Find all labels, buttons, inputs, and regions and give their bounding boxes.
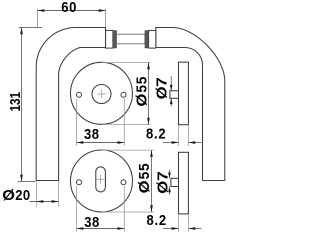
svg-text:8.2: 8.2 [147, 212, 167, 228]
lower screw hole right [121, 180, 126, 185]
dim Ø55 upper extension lines [102, 63, 151, 125]
dim 8.2 upper extension lines [179, 126, 189, 146]
upper rosette circle [71, 62, 133, 124]
dim 131 line [21, 28, 23, 182]
dim 38 upper extension lines [77, 99, 125, 146]
upper boss crosshair [97, 90, 105, 98]
dim Ø7 upper arrows [170, 76, 173, 106]
dim 38 lower extension lines [77, 186, 125, 232]
svg-text:Ø: Ø [2, 188, 15, 204]
dim Ø55 upper arrows [147, 63, 150, 125]
svg-text:38: 38 [84, 126, 100, 142]
dim 131 extension bottom [18, 181, 36, 183]
svg-text:55: 55 [133, 76, 149, 93]
svg-text:38: 38 [84, 214, 100, 230]
lower rosette circle [71, 150, 133, 212]
svg-text:Ø: Ø [154, 86, 170, 99]
dim 131 arrows [20, 28, 23, 182]
dim 38 lower line [77, 228, 125, 230]
dim 8.2 lower extension lines [179, 215, 189, 232]
dim 38 lower arrows [77, 227, 125, 230]
keyhole slot [96, 167, 106, 192]
dim Ø7 lower arrows [168, 170, 171, 195]
dim Ø55 upper line [148, 63, 150, 125]
svg-text:131: 131 [7, 92, 23, 112]
dim 38 upper line [77, 142, 125, 144]
right rosette base band [145, 31, 149, 48]
dim 131 extension top [19, 27, 42, 29]
svg-text:7: 7 [155, 171, 171, 181]
spindle [117, 34, 146, 44]
dim 60 arrows [38, 9, 106, 12]
lower rosette side bar [179, 152, 189, 214]
upper screw hole left [77, 92, 82, 97]
keyhole crosshair [97, 175, 105, 184]
svg-text:Ø: Ø [134, 94, 150, 107]
lower screw hole left [77, 180, 82, 185]
dim 60 extension lines [38, 9, 106, 30]
left rosette cap (top view) [106, 30, 113, 48]
dim Ø20 line and arrows [30, 200, 59, 203]
svg-text:20: 20 [15, 187, 30, 203]
upper rosette side bar [179, 62, 189, 125]
svg-text:8.2: 8.2 [146, 126, 166, 142]
left rosette base band [113, 31, 117, 48]
lever handle left (front view outline) [36, 27, 105, 180]
upper spindle boss circle [92, 85, 111, 104]
dim 8.2 upper line and arrows [163, 141, 202, 144]
svg-text:55: 55 [136, 163, 152, 180]
dim Ø55 lower line [151, 150, 153, 212]
lever handle right (front view outline) [156, 28, 225, 181]
dim 38 upper arrows [77, 141, 125, 144]
lower hub [171, 178, 179, 186]
right rosette cap (top view) [149, 30, 156, 48]
upper hub [170, 91, 179, 99]
dim Ø55 lower extension lines [102, 150, 154, 212]
upper screw hole right [121, 92, 126, 97]
dim 60 line [38, 10, 106, 12]
dim Ø20 extension lines [37, 182, 59, 207]
svg-text:Ø: Ø [155, 181, 171, 194]
dim 8.2 lower line and arrows [163, 227, 202, 230]
svg-text:Ø: Ø [137, 180, 153, 193]
svg-text:60: 60 [61, 0, 77, 15]
dim Ø55 lower arrows [150, 150, 153, 212]
svg-text:7: 7 [154, 77, 170, 87]
